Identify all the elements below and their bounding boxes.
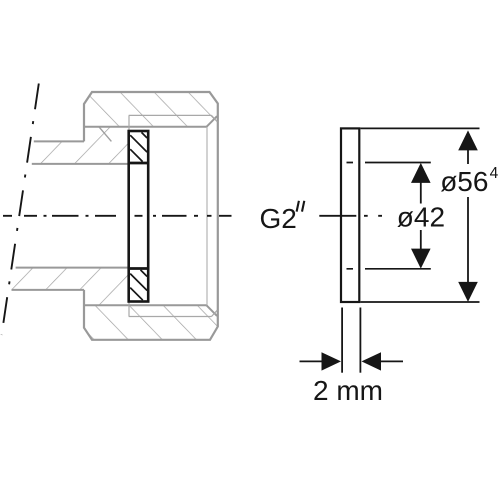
extension line o56 top	[361, 127, 480, 129]
svg-text:G2: G2	[260, 203, 297, 234]
extension line o56 bottom	[361, 301, 480, 303]
svg-text:ø56: ø56	[440, 166, 488, 197]
nut bottom band hatching	[84, 305, 218, 340]
bore step vertical bottom	[128, 302, 130, 317]
gasket hole edge bottom	[129, 267, 149, 270]
double prime mark	[297, 201, 299, 212]
pipe inner wall bottom	[16, 267, 129, 269]
bore step vertical top	[128, 115, 130, 131]
halo o42 label	[395, 204, 447, 231]
pipe inner wall top	[32, 163, 129, 165]
gasket hole edge top	[129, 162, 149, 165]
nut outer profile	[84, 92, 218, 340]
pipe outer wall top	[34, 140, 84, 142]
gasket section hatch bottom cell	[130, 270, 147, 300]
svg-text:2 mm: 2 mm	[313, 375, 383, 406]
gasket section hatch top cell	[130, 132, 147, 161]
2mm extension line left	[341, 308, 343, 373]
centerline right view	[319, 215, 382, 217]
main centerline left view	[3, 215, 232, 217]
2mm extension line right	[359, 308, 361, 373]
hole centerline marks in side view top	[347, 162, 431, 164]
nut chamfer top-right	[207, 116, 218, 127]
pipe top wall + nut collar hatching	[32, 127, 129, 164]
o42 arrow down	[411, 249, 431, 269]
2mm left arrowhead	[322, 352, 342, 370]
halo o56 label	[439, 164, 500, 197]
pipe break diagonal centerline	[2, 84, 39, 336]
2mm left arrow tail	[300, 360, 323, 362]
svg-text:ø42: ø42	[397, 202, 445, 233]
2mm right arrowhead	[362, 352, 382, 370]
thread engagement cross line	[99, 127, 112, 142]
o42 arrow up	[411, 163, 431, 183]
o56 arrow up	[458, 130, 478, 150]
nut thread bore line bottom	[129, 316, 212, 318]
nut thread bore line top	[129, 114, 212, 116]
hole centerline marks in side view bottom	[347, 268, 431, 270]
bore chamfer diag bottom	[212, 310, 218, 316]
nut face inner edge vertical	[206, 127, 208, 305]
nut chamfer bottom-right	[207, 305, 218, 316]
nut top band hatching	[84, 92, 218, 127]
gasket section outline	[129, 131, 149, 302]
nut inner face line top	[84, 126, 207, 128]
o56 arrow down	[458, 282, 478, 302]
svg-text:4: 4	[490, 165, 499, 182]
2mm right arrow tail	[380, 360, 403, 362]
gasket side view outline	[341, 128, 359, 302]
bore chamfer diag top	[212, 115, 218, 121]
o42 dimension line	[420, 181, 422, 250]
pipe outer wall bottom	[12, 289, 85, 291]
o56 dimension line	[467, 148, 469, 284]
nut inner face line bottom	[84, 304, 207, 306]
pipe bottom wall + nut collar hatching	[12, 268, 130, 306]
